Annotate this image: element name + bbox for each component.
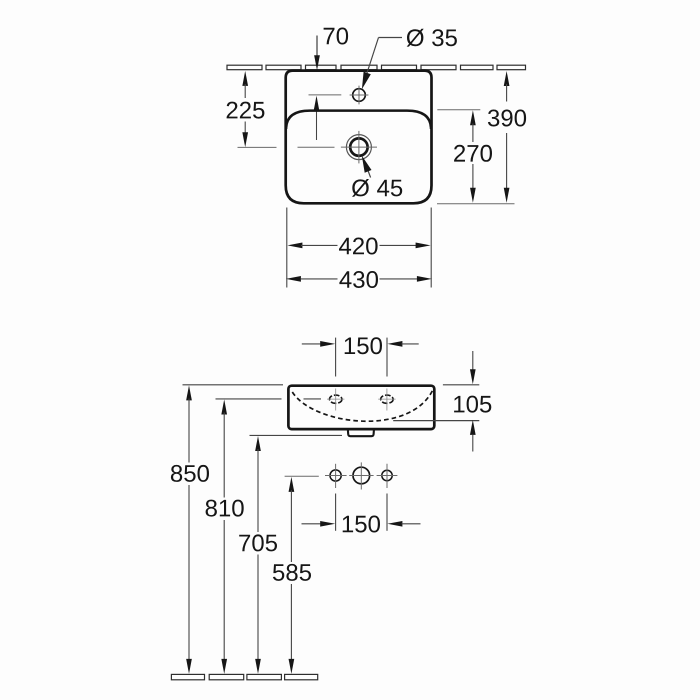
- wall section line (top view): [227, 65, 262, 70]
- dimension 150 top label: [345, 337, 382, 354]
- sink bottom extension line: [437, 203, 515, 205]
- dimension 850 line and arrows: [186, 385, 192, 400]
- leader to drain hole: [366, 164, 371, 178]
- dimension 705 label: [239, 534, 277, 551]
- tap hole left (front view): [330, 395, 342, 403]
- dimension 270 line and arrows: [470, 110, 476, 125]
- width extension lines: [286, 208, 288, 288]
- dimension 150 top extension lines: [335, 338, 337, 377]
- height 850 extension line: [183, 384, 284, 386]
- height 810 extension line: [216, 398, 282, 400]
- supply hole centre: [353, 467, 370, 484]
- dimension 225 label: [227, 102, 265, 119]
- front top extension line: [443, 384, 479, 386]
- basin interior hidden curve: [292, 388, 433, 421]
- dimension 150 bottom label: [343, 516, 380, 533]
- tap hole Ø35 (top view): [353, 89, 366, 102]
- tap hole centerline extension: [309, 94, 342, 96]
- fixing hole left: [330, 470, 341, 481]
- dimension 420 label: [339, 238, 378, 255]
- dimension 850 label: [171, 465, 209, 482]
- dimension 70 label: [324, 28, 349, 45]
- drain hole Ø45 (top view): [346, 135, 371, 160]
- dimension 585 label: [273, 564, 311, 581]
- label Ø45: [352, 179, 402, 197]
- holes centerline extension: [285, 475, 319, 477]
- floor section line (front view): [171, 674, 204, 679]
- dimension 810 label: [206, 500, 244, 517]
- dimension 70 upper arrow: [316, 36, 318, 57]
- dimension 270 label: [454, 145, 492, 162]
- label Ø35: [407, 29, 457, 47]
- dimension 70 lower arrow: [316, 98, 318, 140]
- height 705 extension line: [250, 434, 343, 436]
- dimension 390 line and arrows: [504, 71, 510, 86]
- drain outlet (front view): [348, 430, 374, 436]
- drain centerline extension: [238, 146, 277, 148]
- leader to tap hole: [379, 37, 403, 39]
- basin outline (front view): [288, 386, 434, 429]
- dimension 420: [287, 243, 302, 249]
- dimension 150 top line and arrows: [302, 343, 322, 345]
- basin front lower edge line: [393, 420, 479, 422]
- dimension 150 bottom line and arrows: [302, 523, 322, 525]
- dimension 430 label: [339, 271, 378, 288]
- dimension 225 line and arrows: [242, 71, 248, 86]
- dimension 430: [286, 276, 301, 282]
- dimension 585 line and arrows: [289, 477, 295, 492]
- dimension 105 label: [454, 396, 491, 413]
- deck extension line: [437, 109, 480, 111]
- basin outer outline (top view): [286, 71, 432, 204]
- dimension 105 line and arrows: [472, 351, 474, 370]
- fixing hole right: [382, 470, 392, 480]
- hole centerline segment: [304, 398, 322, 400]
- dimension 705 line and arrows: [255, 436, 261, 451]
- dimension 150 bottom extension lines: [335, 494, 337, 531]
- basin inner deck line (top view): [286, 111, 431, 129]
- dimension 390 label: [488, 110, 526, 127]
- dimension 810 line and arrows: [221, 400, 227, 415]
- tap hole right (front view): [381, 395, 393, 403]
